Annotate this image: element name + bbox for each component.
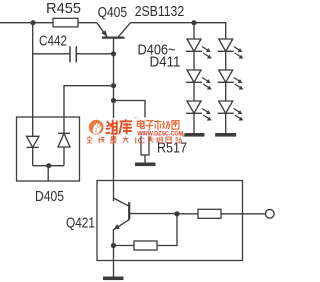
wire to output terminal xyxy=(221,213,265,215)
wire LED column left 1 xyxy=(193,51,195,70)
wire R517 to terminal bar xyxy=(144,155,146,163)
terminal bar below R517 xyxy=(135,163,156,167)
node supply/left branch junction xyxy=(30,20,35,25)
resistor R455 xyxy=(53,18,78,27)
watermark glyph wei xyxy=(104,118,134,136)
svg-text:C442: C442 xyxy=(39,34,67,50)
watermark row quan qiu zui da IC cai gou wang zhan xyxy=(87,134,185,143)
ground xyxy=(103,277,124,281)
wire D405 common join xyxy=(33,165,64,167)
wire base to output resistor xyxy=(177,213,198,215)
wire left branch vertical down to D405 left diode xyxy=(32,23,34,137)
wire LED column right 1 xyxy=(225,51,227,70)
watermark text dian zi shi chang wang xyxy=(135,117,183,132)
svg-text:D411: D411 xyxy=(150,55,181,71)
resistor feedback (emitter-base) xyxy=(134,241,157,250)
wire R455 to Q405 emitter xyxy=(78,22,97,24)
wire LED column right 3 xyxy=(225,113,227,133)
wire LED column left 3 xyxy=(193,113,195,133)
resistor R517 xyxy=(141,127,149,155)
node R517 branch xyxy=(111,98,116,103)
wire LED column right 2 xyxy=(225,82,227,101)
wire emitter to ground xyxy=(113,246,115,277)
node LED left column xyxy=(191,20,196,25)
LED D409 xyxy=(218,39,244,59)
watermark logo circle xyxy=(89,120,104,135)
svg-text:D405: D405 xyxy=(35,189,64,205)
diode D405 right (cathode top) xyxy=(58,133,70,165)
wire rail to LED D406 xyxy=(193,23,195,39)
wire LED column left 2 xyxy=(193,82,195,101)
svg-text:Q405: Q405 xyxy=(98,5,128,21)
wire common tap to box edge xyxy=(47,166,49,181)
node C442 to base line xyxy=(111,51,116,56)
D405 package box xyxy=(17,117,80,181)
node D405 branch xyxy=(111,83,116,88)
transistor Q421 (NPN) xyxy=(113,198,177,246)
node D405 common xyxy=(46,163,51,168)
node Q421 base xyxy=(174,211,179,216)
resistor output (base series) xyxy=(198,209,221,218)
watermark text WWW.DZSC.COM xyxy=(136,130,185,137)
watermark glyph ku xyxy=(119,119,132,134)
svg-text:R455: R455 xyxy=(46,1,81,17)
wire top rail right to LED columns xyxy=(131,23,226,39)
wire Q405 base vertical down to Q421 xyxy=(113,37,115,201)
node Q421 emitter xyxy=(111,243,116,248)
capacitor C442 xyxy=(33,46,114,62)
svg-text:2SB1132: 2SB1132 xyxy=(135,4,185,20)
svg-text:Q421: Q421 xyxy=(66,216,95,232)
wire branch to D405 right diode xyxy=(64,86,114,134)
LED D411 xyxy=(218,101,244,121)
diode D405 left (anode top) xyxy=(27,136,39,165)
transistor Q405 (PNP 2SB1132) xyxy=(97,23,131,38)
LED D407 xyxy=(186,70,212,90)
svg-text:IC: IC xyxy=(134,136,145,145)
IC module box around Q421 xyxy=(97,181,243,261)
wire top rail left from edge to R455 xyxy=(0,22,53,24)
wire feedback resistor up to base node xyxy=(157,214,177,246)
LED D410 xyxy=(218,70,244,90)
terminal output circle xyxy=(266,210,275,219)
terminal bar LED right column xyxy=(215,133,236,137)
wire emitter to feedback resistor xyxy=(114,245,135,247)
LED D408 xyxy=(186,101,212,121)
LED D406 xyxy=(186,39,212,59)
terminal bar LED left column xyxy=(184,133,205,137)
wire branch to R517 xyxy=(114,101,146,128)
